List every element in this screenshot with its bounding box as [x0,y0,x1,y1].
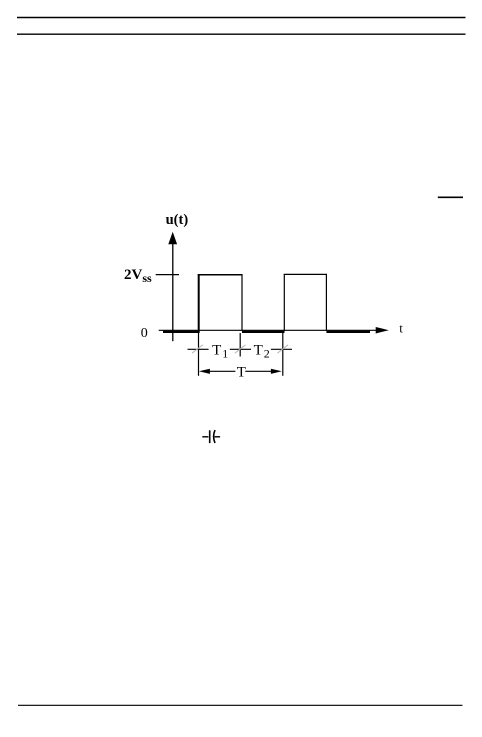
waveform top pulse 2 [284,273,327,275]
x-axis arrowhead [376,327,389,334]
2Vss tick [156,274,179,276]
waveform rising edge pulse 1 [198,274,200,333]
header rule top [17,17,466,19]
svg-text:T: T [212,342,221,358]
T dimension line left [210,370,236,372]
svg-text:0: 0 [141,326,148,341]
waveform 0-level segment 2 [242,331,285,333]
capacitor left plate [209,430,211,443]
y-axis arrowhead [168,232,177,245]
T dimension line right [245,370,272,372]
svg-text:T: T [237,365,246,381]
capacitor left lead [202,436,208,438]
svg-text:T: T [254,342,263,358]
waveform falling edge pulse 1 [241,274,243,331]
y-axis [172,242,174,341]
T dimension arrow left head [199,369,210,374]
x-axis [159,329,377,331]
tick slash left [192,345,203,353]
tick slash right [277,345,288,353]
dimension boundary line right [282,331,284,376]
capacitor right lead [215,436,221,438]
short rule right [438,196,463,198]
waveform falling edge pulse 2 [325,274,327,331]
waveform 0-level segment 3 [326,331,370,333]
tick cross left [188,348,209,350]
dimension boundary line middle [239,333,241,357]
header rule bottom [17,33,466,35]
svg-text:2V: 2V [124,267,143,283]
waveform 0-level segment 1 [163,331,200,333]
svg-text:ss: ss [142,271,152,285]
svg-text:1: 1 [222,347,228,361]
tick slash middle [235,345,246,353]
waveform rising edge pulse 2 [283,274,285,331]
capacitor symbol [202,430,220,443]
footer rule [18,704,463,706]
tick cross middle [230,348,251,350]
tick cross right [271,348,292,350]
dimension boundary line left [198,333,200,376]
svg-text:u(t): u(t) [166,212,189,228]
capacitor right plate curved [214,430,215,443]
svg-text:2: 2 [264,347,270,361]
svg-text:t: t [399,321,403,336]
waveform top pulse 1 [198,274,243,276]
T dimension arrow right head [271,369,282,374]
